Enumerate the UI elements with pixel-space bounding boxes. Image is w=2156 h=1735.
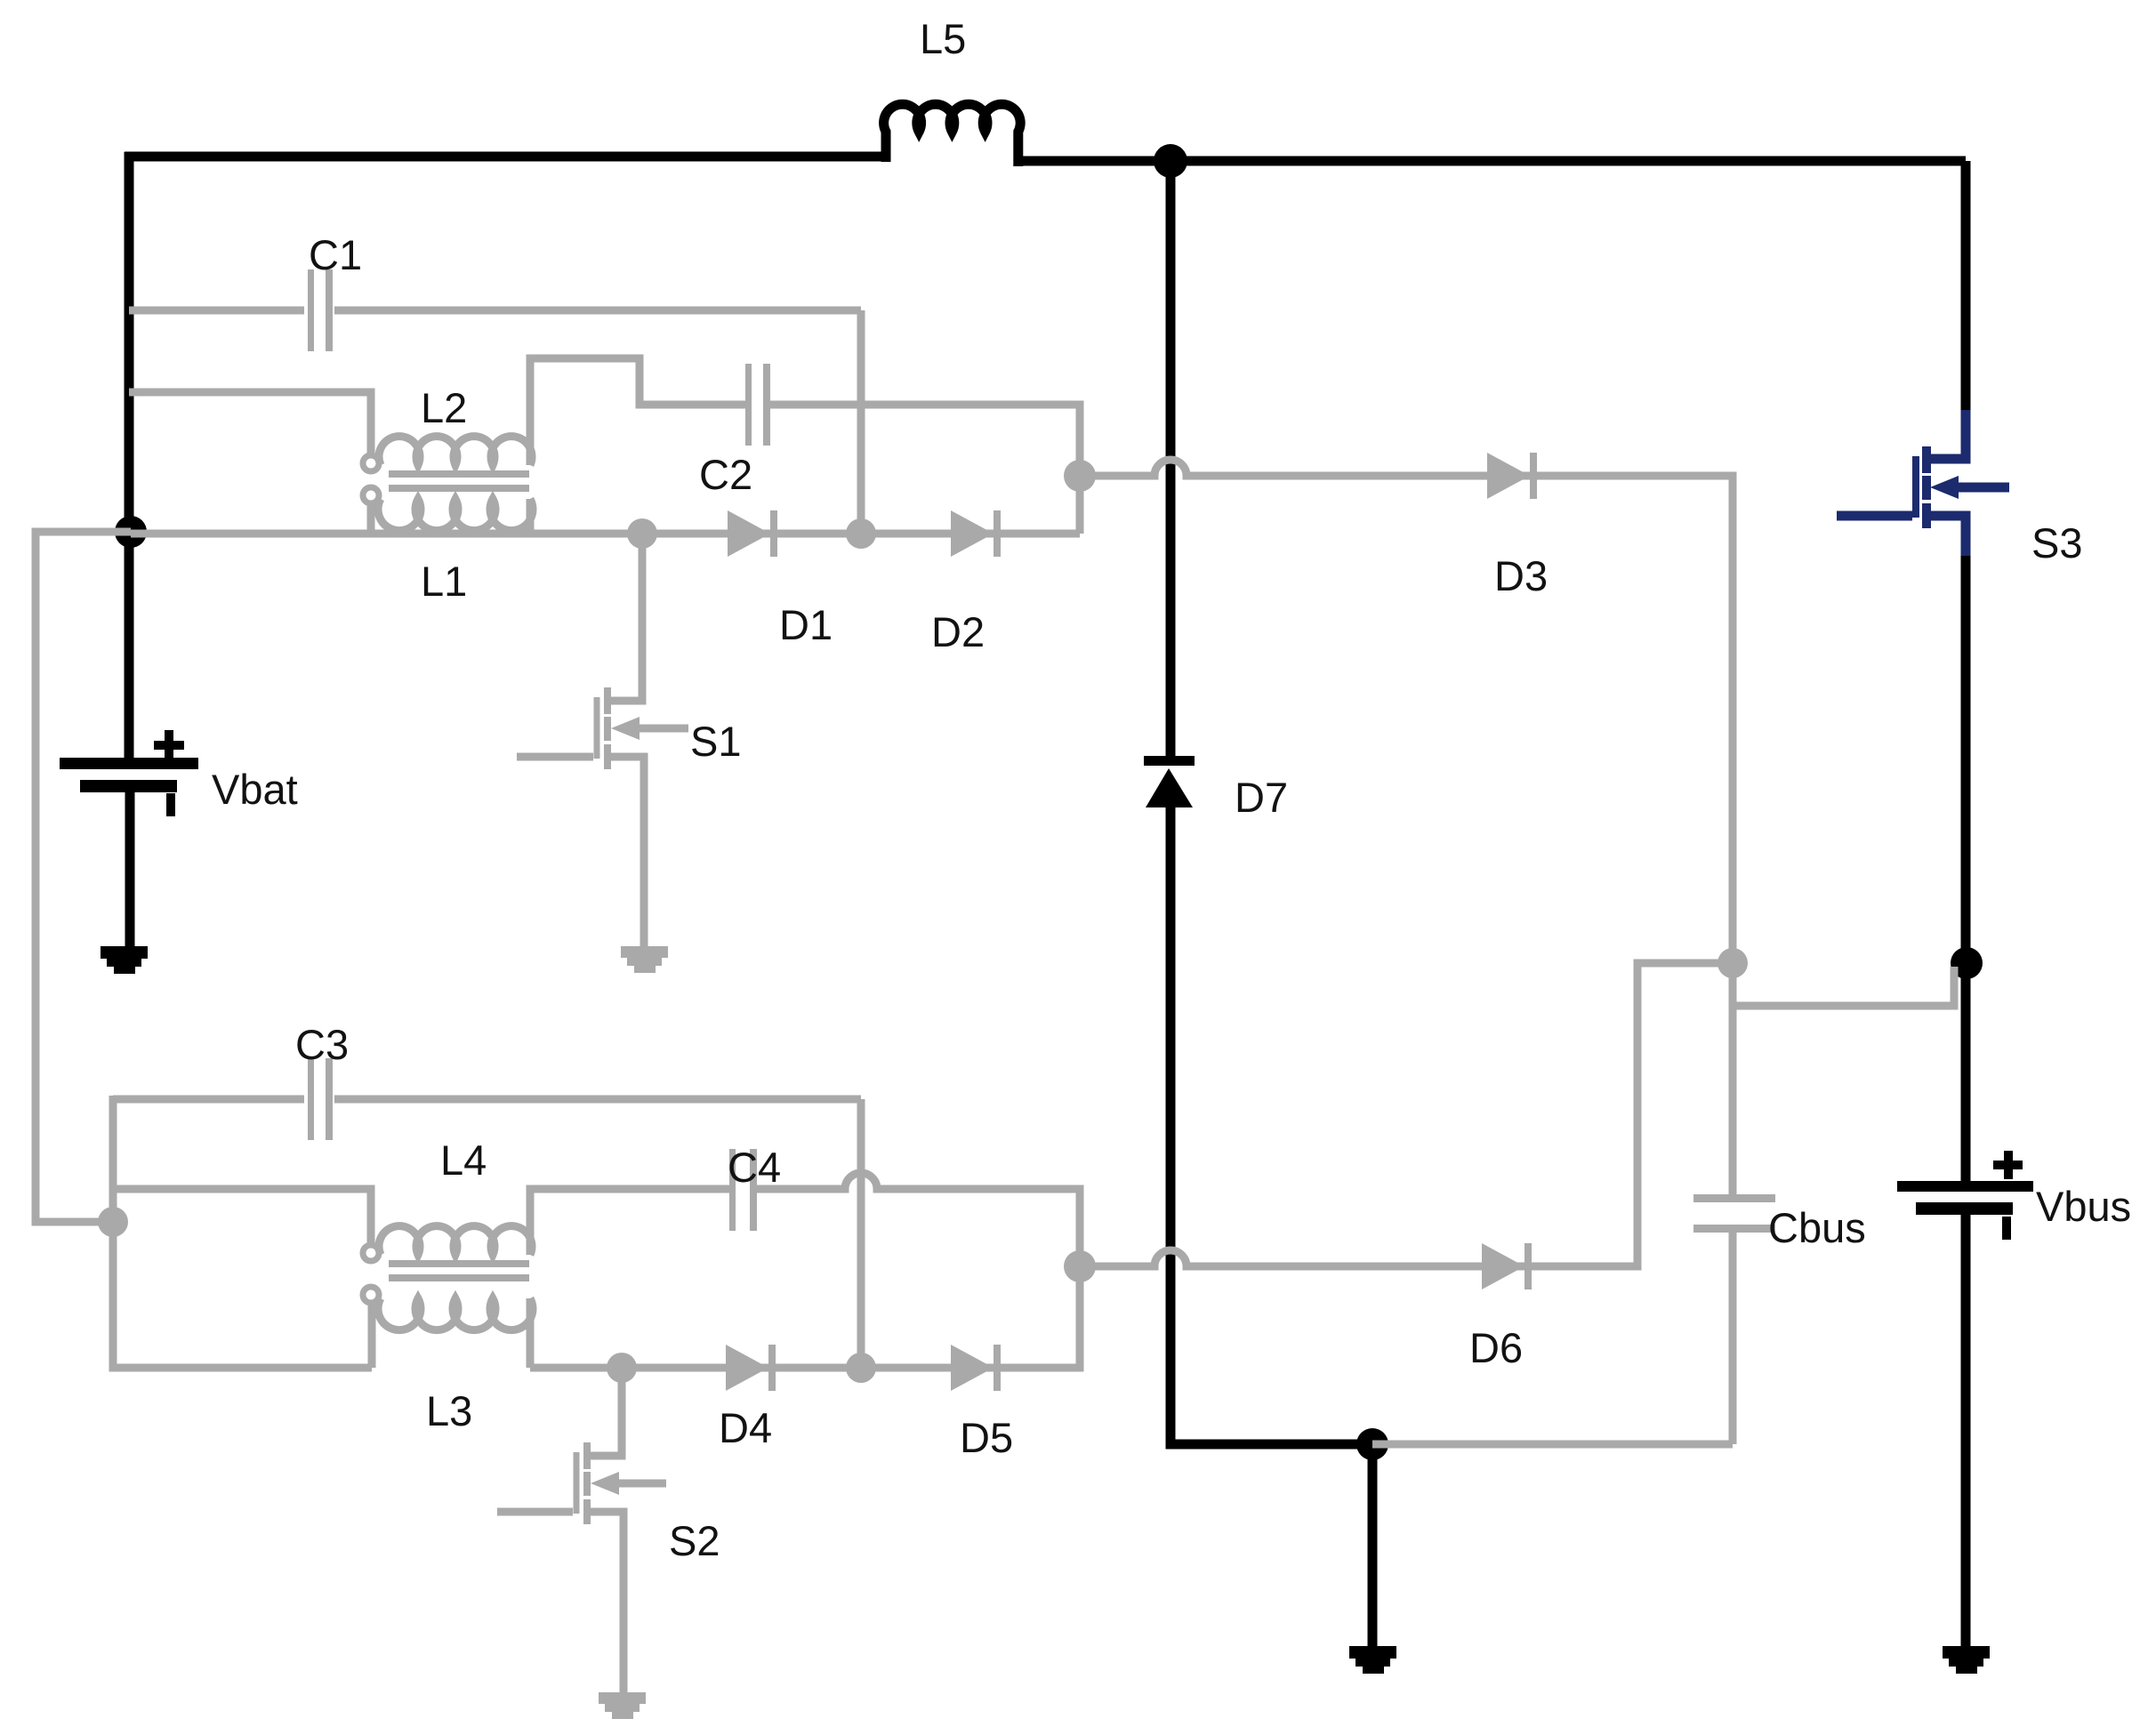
svg-text:D1: D1	[779, 601, 833, 648]
node S2 drain tap	[607, 1353, 637, 1383]
capacitor C4	[729, 1149, 736, 1231]
node D2-D3 junction	[1064, 460, 1096, 492]
coupled inductor L2 winding	[363, 455, 379, 471]
svg-text:S2: S2	[669, 1517, 720, 1564]
svg-text:C3: C3	[295, 1021, 349, 1068]
svg-text:Vbat: Vbat	[212, 766, 298, 813]
capacitor C1	[308, 269, 314, 351]
wire L4 riser and C4 rail with hop over C3 drop	[530, 1189, 729, 1255]
wire C3 rail	[113, 1096, 304, 1104]
wire S3 drain black	[1961, 161, 1971, 414]
svg-text:S1: S1	[690, 718, 742, 765]
capacitor Cbus	[1693, 1194, 1775, 1202]
node S3 source junction	[1951, 947, 1983, 979]
node D5-D6 junction	[1064, 1250, 1096, 1282]
capacitor C3	[308, 1058, 314, 1140]
svg-text:C2: C2	[699, 451, 752, 498]
wire D7 branch top	[1166, 157, 1176, 758]
svg-text:L4: L4	[440, 1137, 487, 1184]
capacitor C2	[745, 364, 752, 446]
svg-text:D3: D3	[1494, 552, 1548, 599]
node C3-drop junction	[846, 1353, 876, 1383]
wire lower-cell left bus	[113, 1096, 372, 1368]
wire D3 rail with hop over D7 branch	[1080, 460, 1733, 963]
svg-text:C4: C4	[728, 1144, 781, 1191]
ground S2 gray	[599, 1692, 646, 1704]
wire L1 left drop	[367, 502, 375, 534]
node C1-drop D-rail junction	[846, 518, 876, 549]
svg-text:D5: D5	[960, 1414, 1013, 1461]
diode D3	[1487, 453, 1530, 499]
wire Cbus bottom drop	[1729, 1233, 1737, 1444]
wire L2 feed rail	[129, 392, 371, 455]
coupled inductor L4 winding	[363, 1245, 379, 1261]
node top junction	[1154, 144, 1187, 178]
diode D7	[1144, 756, 1195, 807]
coupled inductor L3 winding	[363, 1287, 379, 1303]
diode D5	[951, 1345, 994, 1391]
wire D6 rail with hop over D7 branch	[1080, 963, 1729, 1266]
wire C1 rail	[129, 307, 304, 315]
wire L3 left drop	[368, 1302, 376, 1368]
ground Vbus	[1943, 1646, 1990, 1674]
wire Vbus minus lead	[1961, 1209, 1971, 1646]
wire top bus right segment	[1018, 157, 1966, 166]
wire output to Cbus top	[1729, 963, 1737, 1194]
svg-text:D2: D2	[931, 608, 985, 655]
wire L1 D-rail	[131, 530, 1080, 538]
wire S3 source to Vbus	[1961, 553, 1971, 1183]
wire C3 drop to lower D-rail	[857, 1099, 865, 1368]
diode D6	[1482, 1243, 1524, 1289]
wire ground stub mid	[1368, 1444, 1378, 1646]
svg-text:S3: S3	[2031, 519, 2083, 566]
svg-text:L2: L2	[421, 384, 467, 431]
node Vbat tap junction	[115, 516, 147, 548]
wire C1 drop to D-rail	[857, 310, 865, 534]
wire L1 right drop	[527, 499, 535, 534]
wire output jog to S3 source node	[1733, 967, 1954, 1006]
diode D4	[726, 1345, 768, 1391]
node S1 drain tap	[627, 518, 657, 549]
wire top bus left segment	[125, 152, 886, 162]
wire L3 right drop	[527, 1298, 535, 1368]
wire D2 riser to D3 junction	[1076, 476, 1084, 534]
diode D1	[728, 510, 770, 557]
diode D2	[951, 510, 994, 557]
wire Vbat minus lead	[125, 786, 135, 946]
svg-text:L3: L3	[426, 1387, 472, 1434]
wire D7 branch bottom to ground rail	[1171, 806, 1372, 1444]
svg-text:Vbus: Vbus	[2036, 1183, 2131, 1230]
wire gray bottom rail	[1372, 1441, 1733, 1449]
wire L2 riser and C2 rail	[530, 358, 746, 465]
node lower cell input	[98, 1207, 128, 1237]
svg-text:L1: L1	[421, 558, 467, 605]
svg-text:D7: D7	[1235, 774, 1288, 821]
transistor S3	[1837, 410, 2009, 556]
core of L3-L4	[389, 1264, 529, 1278]
svg-text:D6: D6	[1469, 1324, 1523, 1371]
wire left bus (Vbat+)	[125, 152, 134, 761]
svg-text:D4: D4	[719, 1404, 772, 1451]
battery Vbus	[1897, 1151, 2033, 1240]
ground mid black	[1349, 1646, 1396, 1674]
node output top junction	[1718, 948, 1748, 978]
node mid ground junction	[1356, 1428, 1388, 1460]
wire Vbat- feeder to lower cell	[36, 532, 131, 1222]
core of L1-L2	[389, 474, 529, 488]
coupled inductor L1 winding	[363, 487, 379, 503]
wire D4 D5 rail	[530, 1266, 1080, 1368]
transistor S2	[497, 1371, 666, 1692]
svg-text:L5: L5	[920, 15, 966, 62]
svg-text:C1: C1	[309, 231, 362, 278]
inductor L5	[884, 104, 1021, 166]
transistor S1	[517, 537, 688, 946]
ground S1 gray	[621, 946, 668, 958]
battery Vbat	[60, 730, 198, 816]
ground Vbat	[101, 946, 148, 974]
svg-text:Cbus: Cbus	[1768, 1204, 1866, 1251]
wire L4 feed rail	[113, 1189, 371, 1245]
